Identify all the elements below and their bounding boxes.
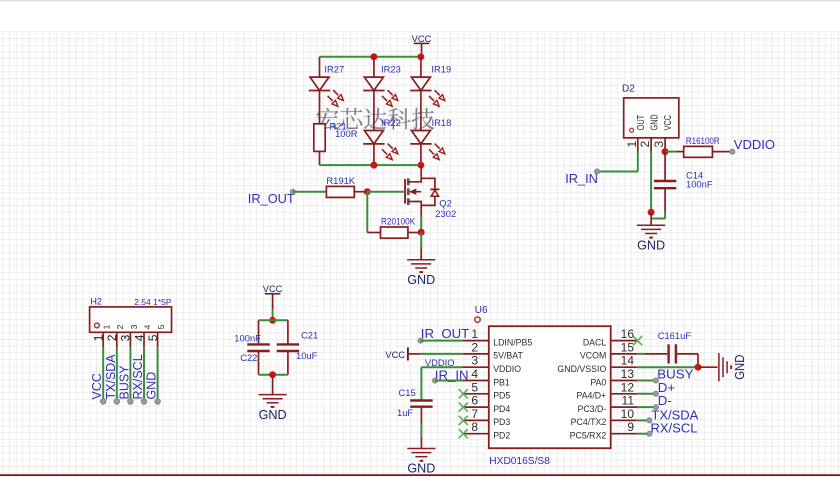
svg-text:TX/SDA: TX/SDA — [104, 354, 118, 400]
junction (top bus / IR23) — [370, 53, 377, 60]
LED IR19 — [410, 64, 451, 107]
ground (U6 right, rotated) — [698, 353, 747, 381]
resistor R21 100R — [314, 120, 358, 151]
wire (VCC to pin2) — [408, 353, 421, 355]
capacitor C22 100nF — [234, 333, 269, 364]
svg-text:IR18: IR18 — [432, 117, 452, 128]
wire (R20 right to source) — [408, 232, 421, 234]
wire (C21 bottom lead) — [287, 351, 289, 375]
capacitor C21 10uF — [277, 330, 319, 362]
svg-text:2302: 2302 — [435, 208, 456, 219]
svg-text:PD4: PD4 — [493, 404, 510, 414]
wire (H2 pin 4) — [143, 347, 145, 401]
wire (pin3 to C15) — [421, 366, 462, 368]
wire (U6 pin13 to BUSY) — [637, 380, 656, 382]
ground (D2) — [637, 212, 665, 252]
wire (U6 pin9 to RX/SCL) — [637, 433, 649, 435]
svg-text:2.54 1*5P: 2.54 1*5P — [134, 297, 172, 307]
svg-text:IR22: IR22 — [381, 117, 401, 128]
capacitor C14 100nF — [654, 169, 713, 189]
svg-text:14: 14 — [621, 354, 635, 368]
wire (R21 to bottom bus) — [319, 151, 321, 165]
svg-text:D2: D2 — [622, 84, 635, 95]
net label IR_IN (D2) — [565, 169, 600, 186]
svg-text:IR_OUT: IR_OUT — [421, 326, 469, 341]
svg-text:C22: C22 — [240, 352, 257, 363]
net label BUSY (H2 pin 3) — [117, 365, 133, 405]
svg-text:12: 12 — [621, 380, 635, 394]
wire (VCC top bus) — [320, 56, 421, 58]
svg-text:7: 7 — [471, 407, 478, 421]
wire (pin14 to GND node) — [637, 366, 698, 368]
svg-text:5V/BAT: 5V/BAT — [493, 351, 523, 361]
svg-text:10: 10 — [621, 407, 635, 421]
wire (IR19 to IR18) — [420, 91, 422, 131]
junction (gate node) — [364, 188, 371, 195]
net label VDDIO (right) — [730, 137, 775, 154]
svg-text:2: 2 — [638, 141, 652, 148]
net label VCC (H2 pin 1) — [90, 373, 106, 404]
svg-text:GND: GND — [637, 239, 665, 253]
svg-text:15: 15 — [621, 340, 635, 354]
svg-text:BUSY: BUSY — [117, 365, 131, 400]
power flag VCC (U6 pin2) — [385, 347, 408, 360]
wire (H2 pin 3) — [129, 347, 131, 401]
net label TX/SDA — [647, 407, 699, 423]
wire (C21 top lead) — [287, 320, 289, 344]
capacitor C15 1uF — [397, 387, 433, 418]
svg-text:3: 3 — [652, 141, 666, 148]
svg-text:PC3/D-: PC3/D- — [577, 404, 606, 414]
svg-text:PD2: PD2 — [493, 431, 510, 441]
no-connect (U6 pin16) — [633, 336, 642, 345]
net label BUSY — [653, 367, 693, 384]
svg-text:VDDIO: VDDIO — [493, 364, 521, 374]
ground (C21/C22) — [259, 375, 287, 422]
wire (VCC node to R16) — [665, 151, 676, 153]
ground (Q2 source) — [407, 248, 435, 288]
wire (Q2 source to R20 node) — [420, 217, 422, 233]
wire (D2 GND down) — [650, 152, 652, 213]
svg-text:R20100K: R20100K — [381, 215, 416, 226]
svg-text:IR_OUT: IR_OUT — [248, 191, 295, 206]
svg-text:100nF: 100nF — [234, 333, 261, 344]
IC U6 HXD016S/S8 — [462, 305, 637, 467]
svg-text:GND: GND — [733, 355, 747, 380]
resistor R19 1K — [326, 175, 355, 198]
resistor R16 100R — [684, 135, 720, 157]
svg-text:1: 1 — [471, 327, 478, 341]
capacitor C16 1uF — [658, 330, 692, 364]
svg-text:PC4/TX2: PC4/TX2 — [571, 417, 607, 427]
LED IR27 — [309, 64, 344, 107]
no-connect (U6 pin 5) — [459, 389, 468, 398]
svg-text:VDDIO: VDDIO — [734, 137, 775, 152]
wire (IR19 anode lead) — [420, 57, 422, 77]
svg-text:PA4/D+: PA4/D+ — [576, 391, 606, 401]
wire (U6 pin11 to D-) — [637, 406, 656, 408]
svg-text:R191K: R191K — [326, 175, 355, 186]
svg-text:GND: GND — [649, 114, 660, 130]
svg-text:PD3: PD3 — [493, 417, 510, 427]
net label GND (H2 pin 5) — [145, 372, 161, 405]
LED IR23 — [363, 64, 401, 107]
svg-text:GND: GND — [259, 408, 287, 422]
wire (cap top rail) — [259, 319, 288, 321]
wire (IR27 cathode to R21) — [319, 91, 321, 124]
wire (gate node to Q2 gate) — [367, 191, 404, 193]
svg-text:GND: GND — [145, 372, 159, 400]
svg-text:1: 1 — [625, 141, 639, 148]
wire (C22 top lead) — [258, 320, 260, 344]
svg-text:4: 4 — [471, 367, 478, 381]
svg-text:GND: GND — [407, 462, 435, 476]
ground (C15) — [407, 449, 435, 476]
svg-text:LDIN/PB5: LDIN/PB5 — [493, 337, 532, 347]
sheet bottom border — [0, 474, 840, 476]
svg-text:GND: GND — [407, 273, 435, 287]
resistor R20 100K — [381, 215, 416, 238]
svg-text:IR19: IR19 — [431, 64, 451, 75]
svg-text:R16100R: R16100R — [686, 135, 720, 146]
wire (LED bottom bus) — [320, 164, 421, 166]
wire (IR23 to IR22) — [373, 91, 375, 131]
svg-text:U6: U6 — [475, 305, 488, 316]
svg-text:VCOM: VCOM — [580, 351, 606, 361]
junction (source / R20) — [418, 229, 425, 236]
net label IR_IN (U6 pin4) — [432, 367, 468, 383]
svg-text:D-: D- — [658, 393, 672, 408]
junction (top bus / VCC) — [418, 53, 425, 60]
power flag VCC (C21) — [263, 284, 283, 309]
svg-text:100nF: 100nF — [686, 178, 713, 189]
svg-text:3: 3 — [129, 324, 139, 329]
no-connect (U6 pin 8) — [459, 429, 468, 438]
junction (cap top) — [269, 317, 276, 324]
wire (U6 pin10 to TX/SDA) — [637, 419, 649, 421]
wire (VCC node down to C14) — [664, 152, 666, 181]
wire (R16 to VDDIO) — [712, 151, 732, 153]
junction (bottom bus / Q2 drain) — [418, 162, 425, 169]
wire (R19 to gate node) — [354, 191, 367, 193]
svg-text:5: 5 — [156, 324, 166, 329]
svg-text:13: 13 — [621, 367, 635, 381]
wire (H2 pin 2) — [116, 347, 118, 401]
wire (H2 pin 1) — [102, 347, 104, 401]
wire (IR23 anode lead) — [373, 57, 375, 77]
wire (gate node down to R20) — [366, 192, 368, 233]
junction (cap bottom) — [269, 371, 276, 378]
junction (D2 GND node) — [648, 209, 655, 216]
LED IR22 — [363, 117, 401, 160]
junction (bottom bus / IR22) — [370, 162, 377, 169]
net label TX/SDA (H2 pin 2) — [104, 354, 120, 405]
svg-text:DACL: DACL — [583, 337, 607, 347]
svg-text:1: 1 — [102, 324, 112, 329]
wire (IR_OUT to pin1) — [421, 340, 463, 342]
svg-text:VCC: VCC — [385, 350, 405, 360]
svg-text:VCC: VCC — [263, 284, 283, 294]
transistor Q2 2302 — [405, 165, 439, 216]
svg-text:3: 3 — [471, 354, 478, 368]
svg-text:IR23: IR23 — [381, 64, 401, 75]
junction (GND/VSSIO node) — [695, 364, 702, 371]
svg-text:16: 16 — [621, 327, 635, 341]
svg-text:2: 2 — [471, 340, 478, 354]
wire (D2 OUT to IR_IN) — [637, 152, 639, 172]
svg-text:VCC: VCC — [663, 115, 674, 130]
svg-text:2: 2 — [115, 324, 125, 329]
watermark text — [317, 108, 435, 130]
svg-text:6: 6 — [471, 394, 478, 408]
net label D- — [653, 393, 672, 410]
power flag VCC (top) — [412, 34, 432, 57]
svg-text:10uF: 10uF — [296, 350, 318, 361]
svg-text:PA0: PA0 — [590, 377, 606, 387]
svg-text:100R: 100R — [335, 128, 358, 139]
wire (IR22 to bottom bus) — [373, 144, 375, 165]
wire (source to GND) — [420, 232, 422, 247]
no-connect (U6 pin 6) — [459, 403, 468, 412]
wire (IR_IN to pin4) — [435, 380, 462, 382]
wire (cap bottom rail) — [259, 374, 288, 376]
svg-text:IR_IN: IR_IN — [565, 171, 598, 186]
svg-text:C21: C21 — [301, 330, 318, 341]
svg-text:RX/SCL: RX/SCL — [651, 421, 698, 436]
header H2 2.54 1*5P — [90, 297, 172, 348]
wire (C14 to GND) — [664, 188, 666, 212]
wire (IR_OUT to R19) — [293, 191, 327, 193]
no-connect (U6 pin 7) — [459, 416, 468, 425]
svg-text:VCC: VCC — [90, 373, 104, 399]
net label RX/SCL — [647, 421, 698, 437]
wire (IR27 anode lead) — [319, 57, 321, 77]
svg-text:H2: H2 — [90, 297, 102, 307]
svg-text:PD5: PD5 — [493, 391, 510, 401]
svg-text:OUT: OUT — [636, 115, 647, 131]
wire (C15 to GND) — [420, 407, 422, 424]
wire (IR18 to bottom bus) — [420, 144, 422, 165]
wire (C22 bottom lead) — [258, 351, 260, 375]
svg-text:PB1: PB1 — [493, 377, 510, 387]
svg-text:5: 5 — [471, 380, 478, 394]
wire (VCC to cap pair) — [272, 309, 274, 320]
net label IR_OUT (left) — [248, 189, 296, 206]
svg-text:VCC: VCC — [412, 34, 432, 44]
junction (D2 VCC node) — [662, 148, 669, 155]
svg-text:C15: C15 — [399, 387, 416, 398]
svg-text:RX/SCL: RX/SCL — [131, 354, 145, 399]
wire (pin15 to C16) — [637, 353, 645, 355]
net label D+ — [653, 380, 675, 397]
wire (U6 pin12 to D+) — [637, 393, 656, 395]
svg-text:1uF: 1uF — [397, 407, 413, 418]
svg-text:4: 4 — [142, 324, 152, 329]
wire (C16 to GND node) — [676, 353, 698, 355]
svg-text:11: 11 — [622, 394, 635, 408]
wire (gate node to R20 left) — [367, 232, 380, 234]
svg-text:8: 8 — [471, 420, 478, 434]
svg-text:PC5/RX2: PC5/RX2 — [570, 431, 607, 441]
svg-text:9: 9 — [627, 420, 634, 434]
svg-text:HXD016S/S8: HXD016S/S8 — [489, 456, 550, 467]
svg-text:Q2: Q2 — [439, 197, 452, 208]
photodiode module D2 — [622, 84, 679, 152]
net label IR_OUT (U6 pin1) — [418, 326, 469, 343]
svg-text:C161uF: C161uF — [658, 330, 692, 341]
svg-text:GND/VSSIO: GND/VSSIO — [557, 364, 606, 374]
LED IR18 — [410, 117, 451, 160]
net label RX/SCL (H2 pin 4) — [131, 354, 147, 404]
wire (H2 pin 5) — [157, 347, 159, 401]
svg-text:IR27: IR27 — [324, 64, 344, 75]
